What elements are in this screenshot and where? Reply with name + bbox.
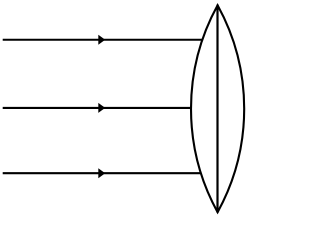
ray 1 wire [3, 39, 203, 41]
ray 2 wire [3, 107, 192, 109]
ray 3 wire [3, 172, 201, 174]
ray 1 arrowhead [98, 35, 105, 45]
ray 3 arrowhead [98, 168, 105, 178]
lens vertical axis line [216, 5, 218, 213]
convex lens outline [191, 5, 244, 212]
ray 2 arrowhead [98, 103, 105, 113]
